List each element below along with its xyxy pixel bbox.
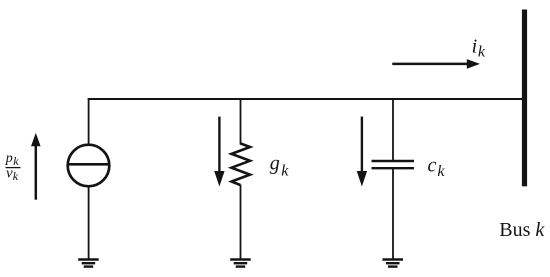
wire: main horizontal bus connection bbox=[88, 98, 523, 100]
current source (power injection) bbox=[67, 145, 109, 187]
wire: resistor bottom lead bbox=[240, 185, 242, 260]
ground (source branch) bbox=[78, 260, 99, 267]
wire: resistor top lead bbox=[240, 98, 242, 144]
svg-text:c: c bbox=[428, 154, 437, 176]
bus bar bbox=[522, 10, 527, 187]
wire: capacitor bottom lead bbox=[392, 169, 394, 259]
svg-text:k: k bbox=[13, 154, 19, 168]
arrow i_k (current into bus) bbox=[392, 59, 480, 69]
svg-text:g: g bbox=[270, 153, 280, 175]
arrow (resistor current, down) bbox=[214, 117, 224, 187]
svg-text:k: k bbox=[281, 163, 289, 180]
wire: source bottom lead bbox=[88, 186, 90, 259]
arrow (capacitor current, down) bbox=[357, 117, 367, 187]
wire: capacitor top lead bbox=[392, 98, 394, 160]
wire: source top lead bbox=[88, 98, 90, 145]
svg-text:k: k bbox=[437, 163, 445, 180]
fraction bar bbox=[6, 167, 21, 169]
resistor g_k bbox=[232, 143, 251, 185]
svg-text:Bus k: Bus k bbox=[499, 219, 545, 241]
svg-text:k: k bbox=[13, 169, 19, 183]
capacitor c_k bbox=[372, 161, 415, 168]
arrow (injection direction, up) bbox=[31, 133, 41, 200]
svg-text:k: k bbox=[478, 44, 486, 61]
svg-text:i: i bbox=[472, 35, 478, 57]
label p_k/v_k bbox=[5, 151, 19, 183]
ground (capacitor branch) bbox=[383, 260, 404, 267]
svg-text:p: p bbox=[5, 151, 13, 166]
ground (resistor branch) bbox=[230, 260, 251, 267]
